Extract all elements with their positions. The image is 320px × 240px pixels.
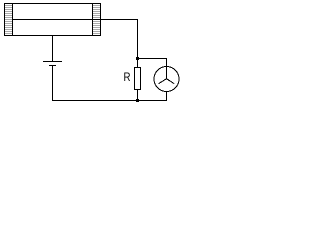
wire (bottom rail) — [52, 100, 167, 102]
svg-text:R: R — [124, 70, 131, 84]
wire (tube bottom to battery) — [52, 35, 54, 62]
electrode left (hatched) — [5, 4, 13, 36]
meter M1 (galvanometer circle) — [154, 67, 179, 92]
wire (middle line through right electrode to corner) — [92, 19, 138, 21]
wire (meter stem vertical into circle) — [166, 58, 168, 80]
wire (junction to meter, horizontal) — [137, 58, 167, 60]
resistor R (body) — [135, 68, 141, 90]
node junction dot bottom — [136, 99, 139, 102]
battery B1 short plate (negative) — [49, 65, 56, 67]
wire (battery to bottom rail) — [52, 66, 54, 102]
meter needle legs (inverted Y) — [159, 79, 175, 84]
node junction dot top — [136, 57, 139, 60]
electrode right (hatched) — [93, 4, 101, 36]
battery B1 long plate (positive) — [43, 61, 62, 63]
wire (tube middle line to right branch corner) — [13, 19, 138, 21]
wire (right branch vertical, corner down to resistor top) — [137, 19, 139, 68]
wire (meter bottom to bottom rail) — [166, 91, 168, 101]
wire (resistor bottom lead) — [137, 90, 139, 101]
tube (ionization chamber) outline — [5, 4, 101, 36]
